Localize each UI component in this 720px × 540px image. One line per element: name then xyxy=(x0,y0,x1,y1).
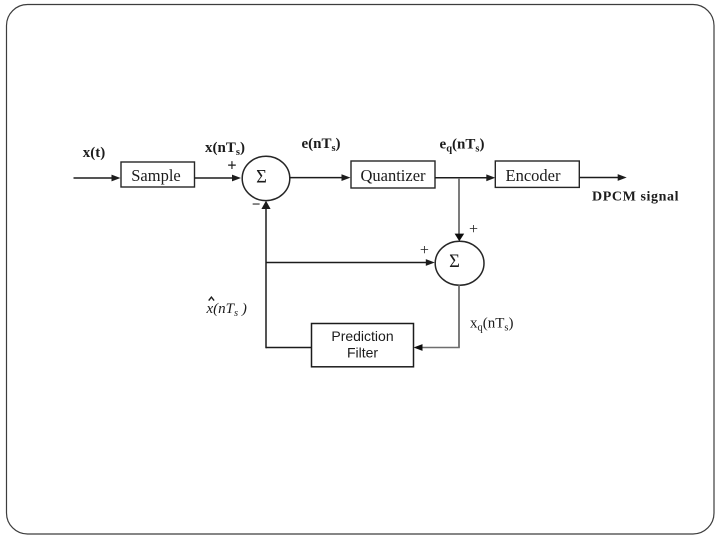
svg-text:Sample: Sample xyxy=(131,166,181,185)
wire: Prediction Filter output left and up to S1 (node A) xyxy=(261,201,311,349)
svg-text:x(nTs ): x(nTs ) xyxy=(206,301,247,319)
svg-text:DPCM signal: DPCM signal xyxy=(592,190,679,205)
block Encoder xyxy=(495,161,579,187)
svg-text:Σ: Σ xyxy=(449,252,460,272)
wire: feedback branch from node A to S2 xyxy=(266,259,435,266)
svg-text:Filter: Filter xyxy=(347,345,378,361)
svg-text:e(nTs): e(nTs) xyxy=(301,136,340,154)
block Sample xyxy=(121,162,195,187)
wire: Quantizer to Encoder xyxy=(435,174,495,181)
svg-text:Quantizer: Quantizer xyxy=(360,166,426,185)
summing junction S1 xyxy=(242,156,290,200)
wire: junction tap down to summer S2 xyxy=(455,178,465,241)
wire: S2 output down and left into Prediction Filter xyxy=(414,285,460,351)
wire: Sample to summer S1 xyxy=(195,175,242,182)
svg-text:Encoder: Encoder xyxy=(506,166,561,185)
svg-text:+: + xyxy=(469,221,478,238)
wire: S1 to Quantizer xyxy=(290,174,351,181)
wire: input x(t) into Sample xyxy=(74,175,121,182)
svg-text:+: + xyxy=(420,242,429,259)
svg-text:−: − xyxy=(252,197,261,213)
svg-text:+: + xyxy=(227,156,236,175)
signal label x^(nTs) xyxy=(206,297,247,319)
summing junction S2 xyxy=(435,241,484,285)
svg-text:Prediction: Prediction xyxy=(331,328,393,344)
svg-text:Σ: Σ xyxy=(256,168,267,188)
block Prediction Filter xyxy=(312,324,414,367)
wire: Encoder output (DPCM signal) xyxy=(579,174,626,181)
block Quantizer xyxy=(351,161,435,188)
svg-text:x(t): x(t) xyxy=(83,145,106,161)
